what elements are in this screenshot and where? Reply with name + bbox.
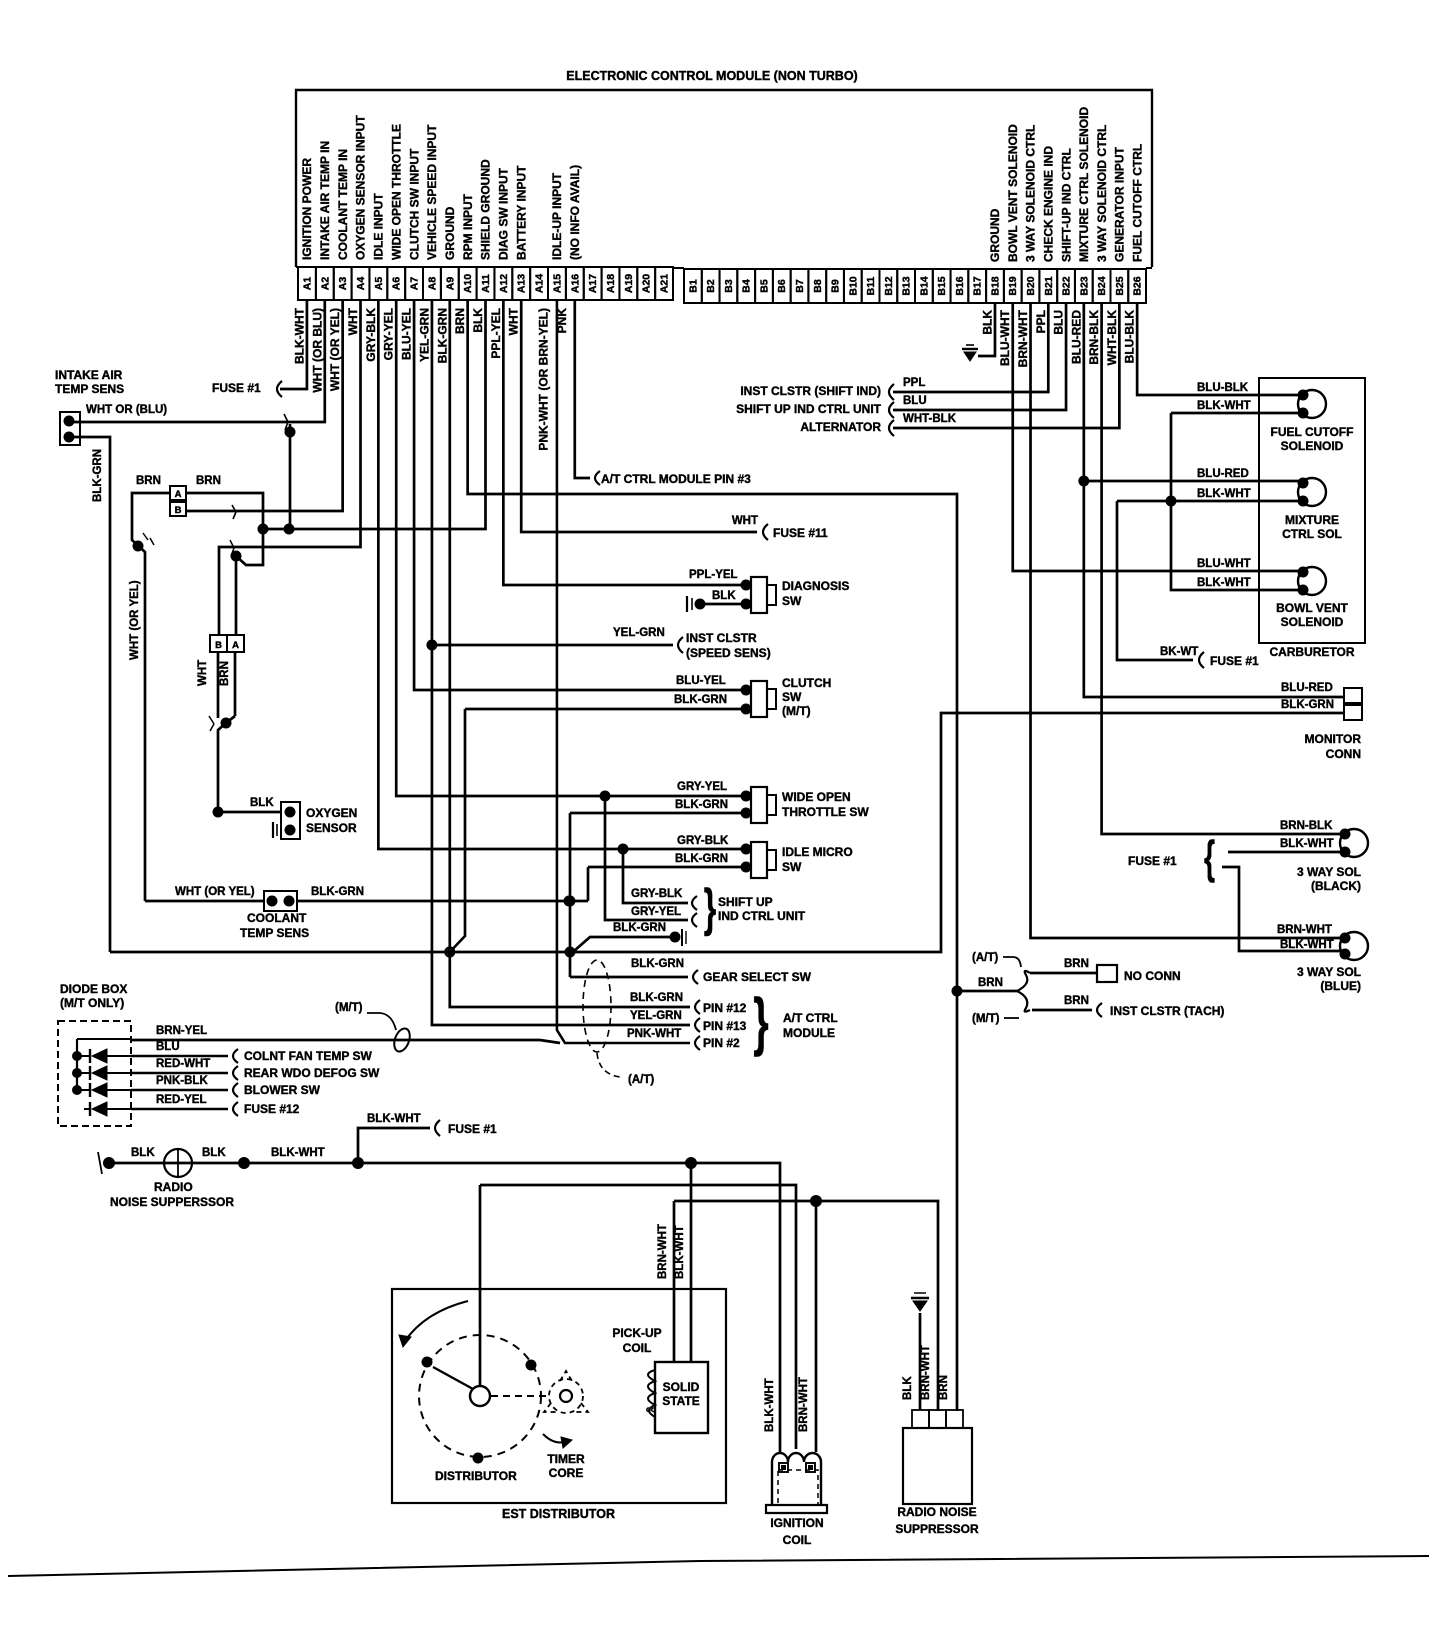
svg-text:SOLID: SOLID — [663, 1380, 700, 1394]
svg-text:FUSE #1: FUSE #1 — [212, 381, 261, 395]
svg-text:RED-WHT: RED-WHT — [156, 1058, 210, 1070]
svg-text:BLK-WHT: BLK-WHT — [1197, 400, 1251, 412]
svg-text:A11: A11 — [480, 274, 492, 293]
svg-text:BLK: BLK — [131, 1147, 155, 1159]
svg-text:INST CLSTR (TACH): INST CLSTR (TACH) — [1110, 1004, 1224, 1018]
svg-text:SHIFT UP: SHIFT UP — [718, 895, 773, 909]
svg-text:B16: B16 — [954, 276, 966, 295]
svg-text:B20: B20 — [1025, 276, 1037, 295]
svg-text:SOLENOID: SOLENOID — [1281, 615, 1344, 629]
svg-text:BRN-WHT: BRN-WHT — [1277, 924, 1332, 936]
svg-text:A14: A14 — [534, 274, 546, 293]
svg-text:(BLACK): (BLACK) — [1311, 879, 1361, 893]
svg-text:COLNT FAN TEMP SW: COLNT FAN TEMP SW — [244, 1049, 372, 1063]
svg-text:B23: B23 — [1078, 276, 1090, 295]
svg-text:WHT-BLK: WHT-BLK — [903, 413, 957, 425]
svg-text:A21: A21 — [659, 274, 671, 293]
svg-text:BLK-WHT: BLK-WHT — [1197, 577, 1251, 589]
svg-text:BRN: BRN — [978, 977, 1003, 989]
svg-text:COOLANT TEMP IN: COOLANT TEMP IN — [336, 149, 350, 260]
svg-text:BRN: BRN — [136, 475, 161, 487]
svg-text:A5: A5 — [373, 277, 385, 291]
svg-text:INTAKE AIR TEMP IN: INTAKE AIR TEMP IN — [318, 141, 332, 260]
svg-text:A16: A16 — [569, 274, 581, 293]
svg-text:BATTERY INPUT: BATTERY INPUT — [514, 165, 528, 260]
svg-text:BLU-BLK: BLU-BLK — [1197, 382, 1249, 394]
svg-text:INTAKE AIR: INTAKE AIR — [55, 368, 123, 382]
svg-text:3 WAY SOLENOID CTRL: 3 WAY SOLENOID CTRL — [1095, 125, 1109, 262]
svg-text:3 WAY SOLENOID CTRL: 3 WAY SOLENOID CTRL — [1024, 125, 1038, 262]
svg-text:IGNITION: IGNITION — [770, 1516, 823, 1530]
svg-text:BLK: BLK — [250, 797, 274, 809]
svg-text:CARBURETOR: CARBURETOR — [1269, 645, 1354, 659]
svg-text:BRN: BRN — [1064, 958, 1089, 970]
svg-text:RADIO: RADIO — [154, 1180, 193, 1194]
svg-text:B: B — [175, 505, 182, 516]
svg-text:SHIFT-UP IND CTRL: SHIFT-UP IND CTRL — [1059, 148, 1073, 262]
svg-text:NOISE SUPPERSSOR: NOISE SUPPERSSOR — [110, 1195, 234, 1209]
svg-text:IDLE MICRO: IDLE MICRO — [782, 845, 853, 859]
svg-text:(M/T): (M/T) — [782, 704, 811, 718]
svg-text:A15: A15 — [551, 274, 563, 293]
svg-text:SW: SW — [782, 594, 802, 608]
svg-text:CORE: CORE — [549, 1466, 584, 1480]
svg-text:A9: A9 — [444, 277, 456, 291]
svg-text:DISTRIBUTOR: DISTRIBUTOR — [435, 1469, 517, 1483]
svg-text:A2: A2 — [319, 277, 331, 291]
svg-text:THROTTLE SW: THROTTLE SW — [782, 805, 869, 819]
svg-text:(M/T): (M/T) — [335, 1002, 363, 1014]
svg-text:B15: B15 — [936, 276, 948, 295]
svg-text:PPL-YEL: PPL-YEL — [489, 308, 503, 359]
svg-text:DIAGNOSIS: DIAGNOSIS — [782, 579, 849, 593]
svg-text:MONITOR: MONITOR — [1305, 732, 1362, 746]
svg-text:STATE: STATE — [662, 1394, 700, 1408]
svg-text:BLU-BLK: BLU-BLK — [1123, 310, 1137, 364]
svg-text:B25: B25 — [1114, 276, 1126, 295]
svg-text:FUSE #12: FUSE #12 — [244, 1102, 300, 1116]
svg-text:BLU-RED: BLU-RED — [1281, 682, 1333, 694]
svg-text:INST CLSTR: INST CLSTR — [686, 631, 757, 645]
svg-text:B2: B2 — [705, 279, 717, 293]
svg-text:SUPPRESSOR: SUPPRESSOR — [895, 1522, 979, 1536]
svg-text:B22: B22 — [1061, 276, 1073, 295]
svg-text:BRN: BRN — [453, 308, 467, 334]
svg-text:GROUND: GROUND — [443, 206, 457, 260]
svg-text:TEMP SENS: TEMP SENS — [55, 382, 124, 396]
svg-text:YEL-GRN: YEL-GRN — [417, 308, 431, 362]
svg-text:WHT: WHT — [732, 515, 758, 527]
svg-text:A8: A8 — [426, 277, 438, 291]
svg-text:A/T CTRL: A/T CTRL — [783, 1011, 838, 1025]
svg-text:GRY-YEL: GRY-YEL — [677, 781, 727, 793]
svg-text:B10: B10 — [847, 276, 859, 295]
svg-text:MIXTURE CTRL SOLENOID: MIXTURE CTRL SOLENOID — [1077, 107, 1091, 262]
svg-text:MIXTURE: MIXTURE — [1285, 513, 1339, 527]
svg-text:(M/T ONLY): (M/T ONLY) — [60, 996, 124, 1010]
svg-text:BLK-GRN: BLK-GRN — [92, 449, 104, 502]
svg-text:INST CLSTR (SHIFT IND): INST CLSTR (SHIFT IND) — [740, 384, 881, 398]
svg-text:FUEL CUTOFF CTRL: FUEL CUTOFF CTRL — [1130, 144, 1144, 262]
svg-text:A: A — [232, 640, 239, 651]
svg-text:BLU: BLU — [1052, 310, 1066, 335]
svg-text:OXYGEN SENSOR INPUT: OXYGEN SENSOR INPUT — [354, 115, 368, 260]
svg-text:FUSE #11: FUSE #11 — [773, 526, 828, 540]
svg-text:B11: B11 — [865, 277, 877, 296]
svg-text:BRN-WHT: BRN-WHT — [798, 1377, 810, 1432]
svg-text:BLK: BLK — [902, 1376, 914, 1400]
svg-text:BLK-WHT: BLK-WHT — [1197, 488, 1251, 500]
svg-text:B3: B3 — [723, 279, 735, 293]
svg-text:GRY-YEL: GRY-YEL — [382, 308, 396, 360]
svg-text:BLK-GRN: BLK-GRN — [675, 853, 728, 865]
svg-text:A10: A10 — [462, 274, 474, 293]
svg-text:}: } — [704, 879, 717, 937]
svg-text:WHT (OR YEL): WHT (OR YEL) — [328, 308, 342, 391]
svg-text:COIL: COIL — [783, 1533, 812, 1547]
svg-text:BK-WT: BK-WT — [1160, 646, 1198, 658]
svg-text:WHT: WHT — [507, 307, 521, 335]
svg-text:BLK: BLK — [980, 310, 994, 335]
svg-text:B7: B7 — [794, 279, 806, 293]
svg-text:PNK-BLK: PNK-BLK — [156, 1075, 208, 1087]
svg-text:EST DISTRIBUTOR: EST DISTRIBUTOR — [502, 1507, 615, 1521]
svg-text:OXYGEN: OXYGEN — [306, 806, 357, 820]
svg-text:YEL-GRN: YEL-GRN — [613, 627, 665, 639]
svg-text:BLK-WHT: BLK-WHT — [1280, 939, 1334, 951]
svg-text:SW: SW — [782, 690, 802, 704]
svg-text:(M/T): (M/T) — [972, 1013, 1000, 1025]
svg-text:TIMER: TIMER — [547, 1452, 585, 1466]
svg-text:A/T CTRL MODULE PIN #3: A/T CTRL MODULE PIN #3 — [601, 472, 751, 486]
svg-text:BLK-GRN: BLK-GRN — [631, 958, 684, 970]
svg-text:YEL-GRN: YEL-GRN — [630, 1010, 682, 1022]
svg-text:A: A — [175, 489, 182, 500]
svg-text:IDLE INPUT: IDLE INPUT — [372, 193, 386, 260]
svg-text:BLK-WHT: BLK-WHT — [271, 1147, 325, 1159]
svg-text:WHT: WHT — [346, 307, 360, 335]
svg-text:BRN: BRN — [196, 475, 221, 487]
svg-text:FUSE #1: FUSE #1 — [1128, 854, 1177, 868]
svg-text:B5: B5 — [759, 279, 771, 293]
svg-text:PIN #13: PIN #13 — [703, 1019, 747, 1033]
svg-text:B19: B19 — [1007, 276, 1019, 295]
svg-text:BLU-YEL: BLU-YEL — [676, 675, 726, 687]
svg-text:WHT OR (BLU): WHT OR (BLU) — [86, 404, 167, 416]
svg-text:COIL: COIL — [623, 1341, 652, 1355]
svg-text:GRY-BLK: GRY-BLK — [631, 888, 683, 900]
svg-text:BLK-GRN: BLK-GRN — [435, 308, 449, 363]
svg-text:B26: B26 — [1132, 276, 1144, 295]
svg-text:CLUTCH: CLUTCH — [782, 676, 831, 690]
svg-text:SENSOR: SENSOR — [306, 821, 357, 835]
svg-text:PNK-WHT: PNK-WHT — [627, 1028, 681, 1040]
svg-text:BLK-GRN: BLK-GRN — [1281, 699, 1334, 711]
svg-text:GRY-YEL: GRY-YEL — [631, 906, 681, 918]
svg-text:CHECK ENGINE IND: CHECK ENGINE IND — [1041, 146, 1055, 262]
svg-text:WIDE OPEN: WIDE OPEN — [782, 790, 851, 804]
svg-text:oo: oo — [646, 1405, 656, 1414]
svg-text:B18: B18 — [990, 276, 1002, 295]
svg-text:BLK-GRN: BLK-GRN — [613, 922, 666, 934]
svg-text:WHT: WHT — [197, 660, 209, 686]
svg-text:BLOWER SW: BLOWER SW — [244, 1083, 321, 1097]
svg-text:B13: B13 — [901, 276, 913, 295]
svg-text:GENERATOR INPUT: GENERATOR INPUT — [1113, 146, 1127, 262]
svg-text:IND CTRL UNIT: IND CTRL UNIT — [718, 909, 806, 923]
svg-text:3 WAY SOL: 3 WAY SOL — [1297, 965, 1361, 979]
svg-text:PIN #2: PIN #2 — [703, 1036, 740, 1050]
svg-text:A13: A13 — [516, 274, 528, 293]
svg-text:DIAG SW INPUT: DIAG SW INPUT — [497, 167, 511, 260]
svg-text:BLK-GRN: BLK-GRN — [311, 886, 364, 898]
svg-text:BLK-WHT: BLK-WHT — [764, 1378, 776, 1432]
svg-text:BRN: BRN — [938, 1375, 950, 1400]
svg-text:BOWL VENT SOLENOID: BOWL VENT SOLENOID — [1006, 124, 1020, 262]
svg-text:B17: B17 — [972, 276, 984, 295]
svg-text:BLK: BLK — [202, 1147, 226, 1159]
svg-text:(SPEED SENS): (SPEED SENS) — [686, 646, 771, 660]
svg-text:B24: B24 — [1096, 276, 1108, 295]
svg-text:GROUND: GROUND — [988, 208, 1002, 262]
svg-text:CTRL SOL: CTRL SOL — [1282, 527, 1342, 541]
svg-text:BLK-GRN: BLK-GRN — [630, 992, 683, 1004]
svg-text:B6: B6 — [776, 279, 788, 293]
svg-text:BRN: BRN — [1064, 995, 1089, 1007]
svg-text:DIODE BOX: DIODE BOX — [60, 982, 127, 996]
svg-text:(A/T): (A/T) — [972, 952, 998, 964]
svg-text:VEHICLE SPEED INPUT: VEHICLE SPEED INPUT — [425, 124, 439, 260]
svg-text:A3: A3 — [337, 277, 349, 291]
svg-text:GRY-BLK: GRY-BLK — [364, 308, 378, 362]
svg-text:FUSE #1: FUSE #1 — [448, 1122, 497, 1136]
svg-text:BOWL VENT: BOWL VENT — [1276, 601, 1348, 615]
svg-text:B: B — [215, 640, 222, 651]
svg-text:PPL-YEL: PPL-YEL — [689, 569, 738, 581]
svg-text:BLU-RED: BLU-RED — [1069, 310, 1083, 364]
svg-text:BRN-WHT: BRN-WHT — [657, 1224, 669, 1279]
svg-text:NO CONN: NO CONN — [1124, 969, 1181, 983]
svg-text:SW: SW — [782, 860, 802, 874]
svg-text:B9: B9 — [830, 279, 842, 293]
svg-text:BLU: BLU — [156, 1041, 180, 1053]
svg-text:3 WAY SOL: 3 WAY SOL — [1297, 865, 1361, 879]
svg-text:B1: B1 — [687, 279, 699, 293]
svg-text:(A/T): (A/T) — [628, 1074, 654, 1086]
svg-text:BRN-WHT: BRN-WHT — [1016, 309, 1030, 367]
svg-text:BRN-BLK: BRN-BLK — [1280, 820, 1333, 832]
svg-text:WHT (OR YEL): WHT (OR YEL) — [129, 580, 141, 660]
svg-text:B4: B4 — [741, 279, 753, 293]
svg-text:BLK-GRN: BLK-GRN — [674, 694, 727, 706]
svg-text:SOLENOID: SOLENOID — [1281, 439, 1344, 453]
svg-text:FUSE #1: FUSE #1 — [1210, 654, 1259, 668]
svg-text:A6: A6 — [391, 277, 403, 291]
svg-text:BRN-BLK: BRN-BLK — [1087, 310, 1101, 365]
svg-text:BLU-WHT: BLU-WHT — [1197, 558, 1251, 570]
svg-text:BLU: BLU — [903, 395, 927, 407]
svg-text:BLK-GRN: BLK-GRN — [675, 799, 728, 811]
svg-text:PPL: PPL — [1034, 310, 1048, 333]
svg-text:(BLUE): (BLUE) — [1320, 979, 1361, 993]
svg-text:BLK: BLK — [712, 590, 736, 602]
svg-text:WHT-BLK: WHT-BLK — [1105, 310, 1119, 366]
svg-text:BLU-WHT: BLU-WHT — [998, 309, 1012, 366]
svg-text:(NO INFO AVAIL): (NO INFO AVAIL) — [568, 165, 582, 260]
svg-text:A12: A12 — [498, 274, 510, 293]
svg-text:IDLE-UP INPUT: IDLE-UP INPUT — [550, 172, 564, 260]
svg-text:BRN: BRN — [219, 661, 231, 686]
svg-text:ALTERNATOR: ALTERNATOR — [800, 420, 881, 434]
svg-text:CLUTCH SW INPUT: CLUTCH SW INPUT — [407, 148, 421, 260]
svg-text:GRY-BLK: GRY-BLK — [677, 835, 729, 847]
svg-text:BLU-YEL: BLU-YEL — [400, 308, 414, 360]
svg-text:PIN #12: PIN #12 — [703, 1001, 747, 1015]
svg-text:CONN: CONN — [1326, 747, 1361, 761]
svg-text:BLU-RED: BLU-RED — [1197, 468, 1249, 480]
svg-text:REAR WDO DEFOG SW: REAR WDO DEFOG SW — [244, 1066, 380, 1080]
svg-text:BRN-WHT: BRN-WHT — [920, 1345, 932, 1400]
svg-text:BRN-YEL: BRN-YEL — [156, 1025, 207, 1037]
svg-text:{: { — [1204, 832, 1215, 884]
svg-text:BLK-WHT: BLK-WHT — [367, 1113, 421, 1125]
svg-text:B8: B8 — [812, 279, 824, 293]
svg-text:RED-YEL: RED-YEL — [156, 1094, 206, 1106]
svg-text:GEAR SELECT SW: GEAR SELECT SW — [703, 970, 812, 984]
svg-text:BLK-WHT: BLK-WHT — [674, 1225, 686, 1279]
svg-text:PICK-UP: PICK-UP — [612, 1326, 661, 1340]
svg-text:BLK: BLK — [471, 308, 485, 333]
svg-text:A1: A1 — [301, 277, 313, 291]
svg-text:PPL: PPL — [903, 377, 925, 389]
svg-text:RPM INPUT: RPM INPUT — [461, 193, 475, 260]
svg-text:SHIELD GROUND: SHIELD GROUND — [479, 159, 493, 260]
svg-text:A7: A7 — [409, 277, 421, 291]
svg-text:B14: B14 — [918, 276, 930, 295]
svg-text:B21: B21 — [1043, 276, 1055, 295]
svg-text:IGNITION POWER: IGNITION POWER — [300, 158, 314, 260]
svg-text:ELECTRONIC CONTROL MODULE (NON: ELECTRONIC CONTROL MODULE (NON TURBO) — [566, 69, 857, 83]
svg-text:MODULE: MODULE — [783, 1026, 835, 1040]
svg-text:FUEL CUTOFF: FUEL CUTOFF — [1271, 425, 1354, 439]
svg-text:WHT (OR YEL): WHT (OR YEL) — [175, 886, 255, 898]
svg-text:COOLANT: COOLANT — [247, 911, 307, 925]
svg-text:BLK-WHT: BLK-WHT — [1280, 838, 1334, 850]
svg-text:WHT (OR BLU): WHT (OR BLU) — [310, 308, 324, 393]
svg-text:BLK-WHT: BLK-WHT — [292, 307, 306, 364]
svg-text:SHIFT UP IND CTRL UNIT: SHIFT UP IND CTRL UNIT — [736, 402, 882, 416]
svg-text:TEMP SENS: TEMP SENS — [240, 926, 309, 940]
svg-text:B12: B12 — [883, 276, 895, 295]
svg-text:A17: A17 — [587, 274, 599, 293]
svg-text:WIDE OPEN THROTTLE: WIDE OPEN THROTTLE — [389, 124, 403, 260]
svg-text:A18: A18 — [605, 274, 617, 293]
svg-text:RADIO NOISE: RADIO NOISE — [897, 1505, 976, 1519]
svg-text:}: } — [753, 987, 768, 1058]
svg-text:A20: A20 — [641, 274, 653, 293]
svg-text:PNK-WHT (OR BRN-YEL): PNK-WHT (OR BRN-YEL) — [537, 308, 551, 451]
svg-text:A19: A19 — [623, 274, 635, 293]
svg-text:A4: A4 — [355, 277, 367, 291]
